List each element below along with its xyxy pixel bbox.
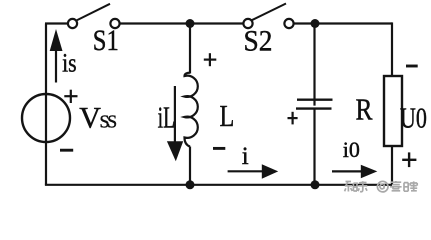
polarity + of inductor [204, 53, 217, 66]
svg-text:L: L [220, 98, 235, 133]
junction node bottom-right (C branch tap) [311, 180, 320, 189]
capacitor C bottom plate [296, 107, 332, 109]
current arrow i0 (right) [332, 165, 377, 178]
svg-text:R: R [356, 92, 373, 127]
polarity + of source [64, 90, 77, 103]
svg-text:S2: S2 [244, 25, 273, 58]
svg-text:i0: i0 [343, 137, 360, 162]
polarity - of inductor [213, 147, 225, 150]
wire L branch top vertical [189, 24, 191, 74]
current arrow iL (down) [167, 86, 183, 161]
wire R branch bottom vertical [391, 146, 393, 185]
wire C branch bottom vertical [313, 108, 315, 185]
resistor R body [384, 76, 402, 146]
switch S2 contact circles [243, 19, 252, 28]
svg-text:U0: U0 [400, 103, 427, 135]
wire R branch top vertical [391, 22, 393, 76]
current arrow i (right) [228, 164, 279, 179]
wire top segment middle [120, 22, 244, 24]
voltage source Vss circle [22, 94, 70, 142]
switch S2 lever [252, 4, 286, 21]
wire top segment right [294, 22, 392, 24]
wire bottom horizontal [45, 184, 392, 186]
svg-text:iL: iL [158, 100, 176, 135]
current arrow is (up) [50, 29, 63, 83]
capacitor C top plate [297, 98, 333, 100]
svg-text:S1: S1 [93, 24, 119, 57]
svg-text:i: i [242, 143, 249, 170]
junction node top-left (L branch tap) [186, 19, 195, 28]
polarity - of output (top of R) [406, 65, 418, 68]
inductor L coil [185, 73, 198, 147]
junction node top-right (C branch tap) [311, 19, 320, 28]
polarity + of capacitor [288, 112, 298, 125]
svg-text:is: is [62, 49, 77, 78]
switch S1 lever [77, 4, 110, 21]
wire L branch bottom vertical [189, 147, 191, 185]
svg-text:VSS: VSS [79, 102, 116, 135]
switch S1 contact circles [68, 19, 77, 28]
junction node bottom-left (L branch tap) [186, 180, 195, 189]
wire left vertical (source branch) [45, 24, 47, 185]
watermark 知乎 @零暖 (drawn as gray marks) [345, 181, 418, 192]
wire C branch top vertical [313, 24, 315, 106]
wire top segment left [45, 22, 68, 24]
polarity + of output (bottom of R) [402, 152, 416, 167]
polarity - of source [60, 149, 73, 152]
